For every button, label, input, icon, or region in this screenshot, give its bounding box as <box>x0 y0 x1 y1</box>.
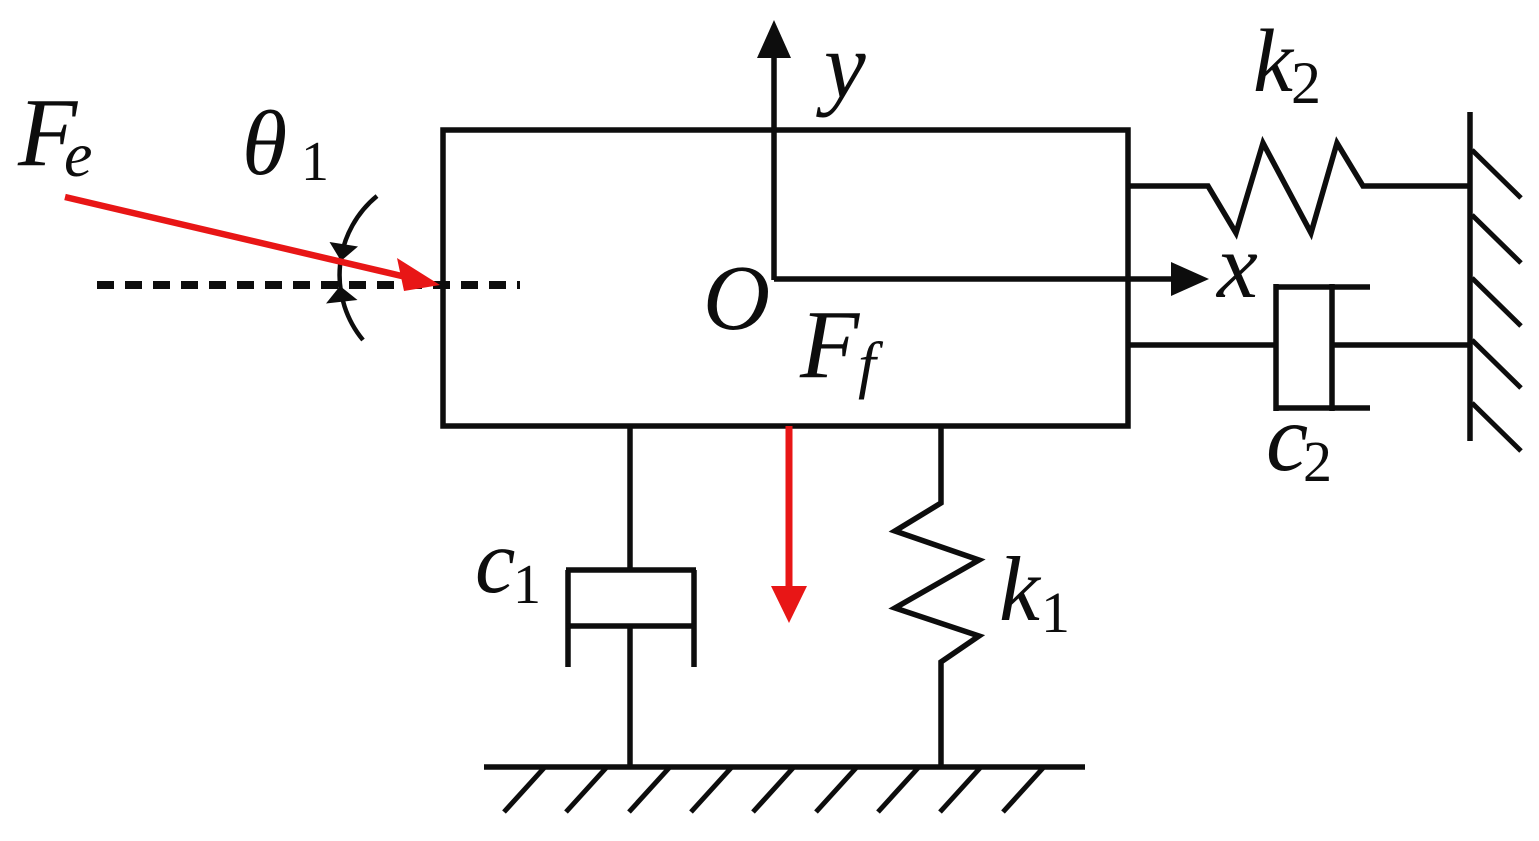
svg-text:k: k <box>1253 12 1295 111</box>
svg-text:O: O <box>703 247 770 350</box>
svg-text:c: c <box>1266 385 1308 491</box>
svg-text:1: 1 <box>513 554 541 616</box>
svg-text:2: 2 <box>1303 429 1332 494</box>
svg-text:c: c <box>475 511 515 612</box>
svg-text:k: k <box>999 538 1042 640</box>
svg-text:θ: θ <box>242 92 287 194</box>
svg-text:x: x <box>1215 215 1258 317</box>
svg-text:1: 1 <box>301 131 329 193</box>
svg-text:e: e <box>64 119 92 190</box>
svg-text:2: 2 <box>1291 50 1321 116</box>
svg-text:y: y <box>816 14 866 118</box>
svg-text:1: 1 <box>1041 580 1070 645</box>
svg-text:F: F <box>799 291 861 398</box>
